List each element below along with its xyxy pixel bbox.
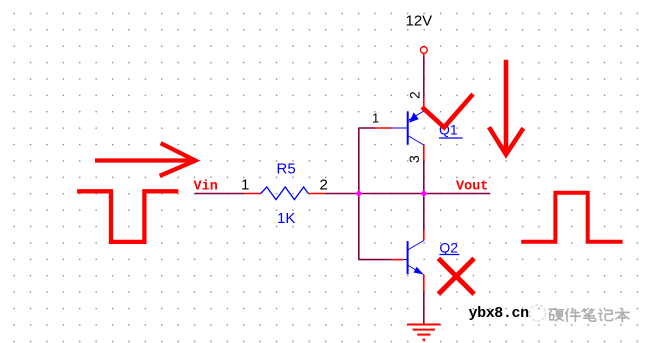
svg-text:2: 2 (320, 177, 328, 194)
svg-text:Vin: Vin (194, 180, 218, 195)
svg-text:ybx8.cn: ybx8.cn (469, 305, 530, 322)
svg-text:R5: R5 (277, 161, 296, 178)
svg-text:1K: 1K (277, 210, 295, 227)
svg-text:2: 2 (407, 91, 423, 99)
svg-text:1: 1 (241, 177, 249, 194)
svg-text:3: 3 (406, 155, 422, 163)
svg-text:1: 1 (372, 111, 379, 126)
svg-text:Vout: Vout (456, 180, 488, 195)
svg-text:Q2: Q2 (439, 240, 458, 256)
svg-text:12V: 12V (406, 13, 433, 30)
